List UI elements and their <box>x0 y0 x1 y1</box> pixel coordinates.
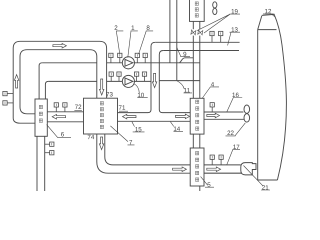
pump P1 circle <box>122 57 134 69</box>
energy recovery box 7 <box>84 98 118 134</box>
wire H3 right horizontal <box>159 80 200 82</box>
svg-text:8: 8 <box>146 25 150 32</box>
wire condenser left drop upper <box>192 21 194 29</box>
svg-text:73: 73 <box>106 91 113 98</box>
wire condenser right drop lower to heater1 <box>199 36 201 99</box>
wire top riser 1 <box>169 0 171 63</box>
valve manifold H2 a <box>109 72 113 81</box>
leader label 5 <box>201 177 214 188</box>
valve below evaporator b <box>45 151 54 155</box>
wire heater1 to fan top pipe <box>204 111 243 113</box>
evaporator box 6 <box>35 99 47 136</box>
svg-text:2: 2 <box>114 25 118 32</box>
secondary heater box 5 <box>190 148 204 186</box>
svg-text:15: 15 <box>135 126 142 133</box>
valve manifold H2 c <box>134 72 138 81</box>
svg-text:13: 13 <box>231 27 238 34</box>
arrow left loop up <box>14 75 18 88</box>
valve manifold H1 b <box>118 53 122 63</box>
valve manifold H2 b <box>117 72 121 81</box>
wire evaporator down pipe right <box>44 137 46 192</box>
wire heater1-heater2 connector left <box>192 134 194 148</box>
wire heater2 right bottom pipe <box>204 172 243 174</box>
leader label 8 <box>139 31 154 54</box>
leader label 6 <box>47 125 71 138</box>
valve evap-recovery a <box>54 103 58 112</box>
leader label 9 <box>177 48 190 57</box>
svg-text:10: 10 <box>137 92 144 99</box>
wire top riser 2 <box>176 0 178 81</box>
pump 21 scroll <box>241 163 256 175</box>
leader label 13 <box>228 32 240 45</box>
leader label 4 <box>202 87 219 98</box>
leader label 2 <box>116 31 123 54</box>
wire pipe B corner drop to H1 <box>159 51 190 113</box>
condenser box <box>190 0 205 21</box>
leader label 72 <box>74 109 82 111</box>
svg-text:6: 6 <box>61 131 65 138</box>
leader label 22 <box>226 123 246 136</box>
svg-text:1: 1 <box>131 25 135 32</box>
valve heater2 right a <box>210 155 214 165</box>
wire pipe A top horizontal <box>155 41 239 43</box>
valve heater1 right <box>210 103 214 112</box>
pump P2 circle <box>122 75 134 87</box>
valve evap-recovery b <box>63 103 67 112</box>
wire below heater2 <box>199 186 201 191</box>
leader label 11 <box>177 81 192 93</box>
leader label 14 <box>170 122 183 132</box>
valve pipe A b <box>219 31 223 42</box>
valve manifold H1 d <box>143 53 147 63</box>
wire manifold top pipe H1 <box>42 62 97 64</box>
svg-text:72: 72 <box>75 104 82 111</box>
svg-text:11: 11 <box>184 87 191 94</box>
wire heater2 right top pipe <box>204 164 241 166</box>
leader label 15 <box>132 122 145 132</box>
wire evaporator to recovery bottom pipe <box>47 121 83 123</box>
svg-text:4: 4 <box>211 81 215 88</box>
svg-text:9: 9 <box>183 51 187 58</box>
wire recovery to heater1 bottom pipe <box>118 120 191 122</box>
valve below evaporator a <box>45 142 54 146</box>
cooling tower shell <box>258 14 287 180</box>
wire loop2 bottom curve into evaporator left <box>20 107 35 114</box>
svg-text:17: 17 <box>233 144 240 151</box>
leader label 19 <box>197 14 240 33</box>
svg-text:14: 14 <box>173 126 180 133</box>
leader label 16 <box>227 98 242 112</box>
valve heater2 right b <box>219 155 223 165</box>
valve pipe A a <box>210 31 214 42</box>
valve left-edge 1 <box>3 91 13 95</box>
arrow heater1 out right-point <box>207 113 220 118</box>
leader label 17 <box>227 149 240 164</box>
svg-text:16: 16 <box>232 92 239 99</box>
wire condenser left drop lower to heater1 <box>192 36 194 99</box>
arrow bottom run 2 right-point <box>207 167 221 172</box>
angled valve 19b <box>198 30 203 35</box>
wire condenser right drop upper <box>199 21 201 29</box>
svg-text:7: 7 <box>129 139 133 146</box>
wire riser from evaporator top to manifold top pipe <box>39 63 42 99</box>
wire recovery bottom inner U-turn <box>105 134 190 165</box>
leader label 12 <box>263 14 275 17</box>
wire recovery bottom outer U-turn <box>97 134 243 173</box>
valve manifold H1 a <box>109 53 113 63</box>
arrow recovery bottom down <box>99 137 103 150</box>
svg-text:12: 12 <box>265 8 272 15</box>
wire loop2: left vertical + top run + drop to manifold <box>20 50 97 107</box>
svg-text:71: 71 <box>119 105 126 112</box>
wire heater1 to fan bottom pipe <box>204 118 245 120</box>
wire riser from evaporator top to manifold bottom pipe <box>45 81 48 99</box>
arrow outer drop down <box>100 79 104 95</box>
svg-text:5: 5 <box>207 182 211 189</box>
leader label 1 <box>128 31 138 58</box>
valve left-edge 2 <box>3 101 13 105</box>
wire vertical Va from pipe A down to heater pipe <box>118 42 156 112</box>
leader label 21 <box>244 166 271 191</box>
svg-text:74: 74 <box>87 134 94 141</box>
angled valve 19a <box>191 30 196 35</box>
arrow evap-recovery left <box>52 114 65 119</box>
valve manifold H1 c <box>135 53 139 63</box>
leader label 7 <box>110 126 134 145</box>
svg-text:19: 19 <box>231 8 238 15</box>
primary heater box 4 <box>190 98 204 134</box>
wire evaporator down pipe left <box>36 137 38 192</box>
svg-text:21: 21 <box>262 185 269 191</box>
wire pipe B top horizontal <box>163 50 239 52</box>
wire heater1-heater2 connector right <box>199 134 201 148</box>
arrow into heater1 right-point <box>176 114 190 119</box>
arrow top loop right <box>53 43 67 48</box>
valve manifold H2 d <box>142 72 146 81</box>
leader label 10 <box>134 84 148 98</box>
fan tower side <box>244 105 250 122</box>
leader label 71 <box>119 110 128 112</box>
wire outer loop: left vertical + top run + right drop into recovery box <box>13 41 106 118</box>
arrow Va drop down <box>152 73 156 87</box>
svg-text:22: 22 <box>227 130 234 137</box>
wire outer loop bottom curve into evaporator left <box>13 118 35 123</box>
fan top <box>213 2 217 15</box>
wire H1 jog up to condenser drop <box>180 58 194 63</box>
wire manifold bottom pipe H2 <box>48 80 96 82</box>
arrow recovery right left-point <box>123 114 137 119</box>
wire evaporator to recovery top pipe <box>47 111 83 113</box>
arrow bottom run 1 right-point <box>173 167 187 172</box>
